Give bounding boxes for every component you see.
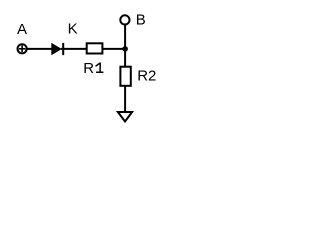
- wire: junction down to resistor R2: [124, 49, 126, 67]
- svg-text:B: B: [136, 11, 146, 28]
- node B (open circle terminal): [120, 15, 129, 24]
- wire: diode cathode to resistor R1: [61, 48, 86, 50]
- junction dot: [122, 46, 128, 52]
- label R1: [83, 60, 103, 77]
- svg-text:K: K: [68, 20, 78, 37]
- wire: resistor R2 to ground: [124, 86, 126, 112]
- resistor R2: [120, 67, 130, 86]
- terminal A (circle with plus): [18, 44, 27, 53]
- wire: resistor R1 to junction: [103, 48, 125, 50]
- svg-text:A: A: [17, 21, 27, 38]
- ground: [118, 112, 132, 122]
- wire: node B down to junction: [124, 25, 126, 49]
- svg-text:R: R: [83, 60, 94, 77]
- diode K (anode triangle + cathode bar): [51, 43, 63, 55]
- svg-text:R2: R2: [137, 68, 156, 85]
- wire: terminal A to diode anode: [27, 48, 53, 50]
- resistor R1: [87, 43, 103, 53]
